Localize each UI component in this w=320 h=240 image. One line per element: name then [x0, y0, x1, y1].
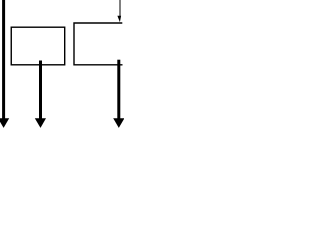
arrowhead bottom-middle — [35, 118, 46, 128]
wire: thin arrow entering from top-right — [119, 0, 121, 16]
wire: arrow shaft from left box down — [39, 61, 42, 120]
node: left rectangle box — [11, 27, 64, 65]
wire: left long vertical flow line — [2, 0, 5, 120]
node: right open box (C shape, open right side) — [74, 23, 123, 65]
arrowhead bottom-left — [0, 118, 9, 128]
arrowhead bottom-right — [113, 118, 124, 128]
arrowhead small top-right — [117, 16, 121, 22]
wire: arrow shaft from right box down — [117, 60, 120, 120]
